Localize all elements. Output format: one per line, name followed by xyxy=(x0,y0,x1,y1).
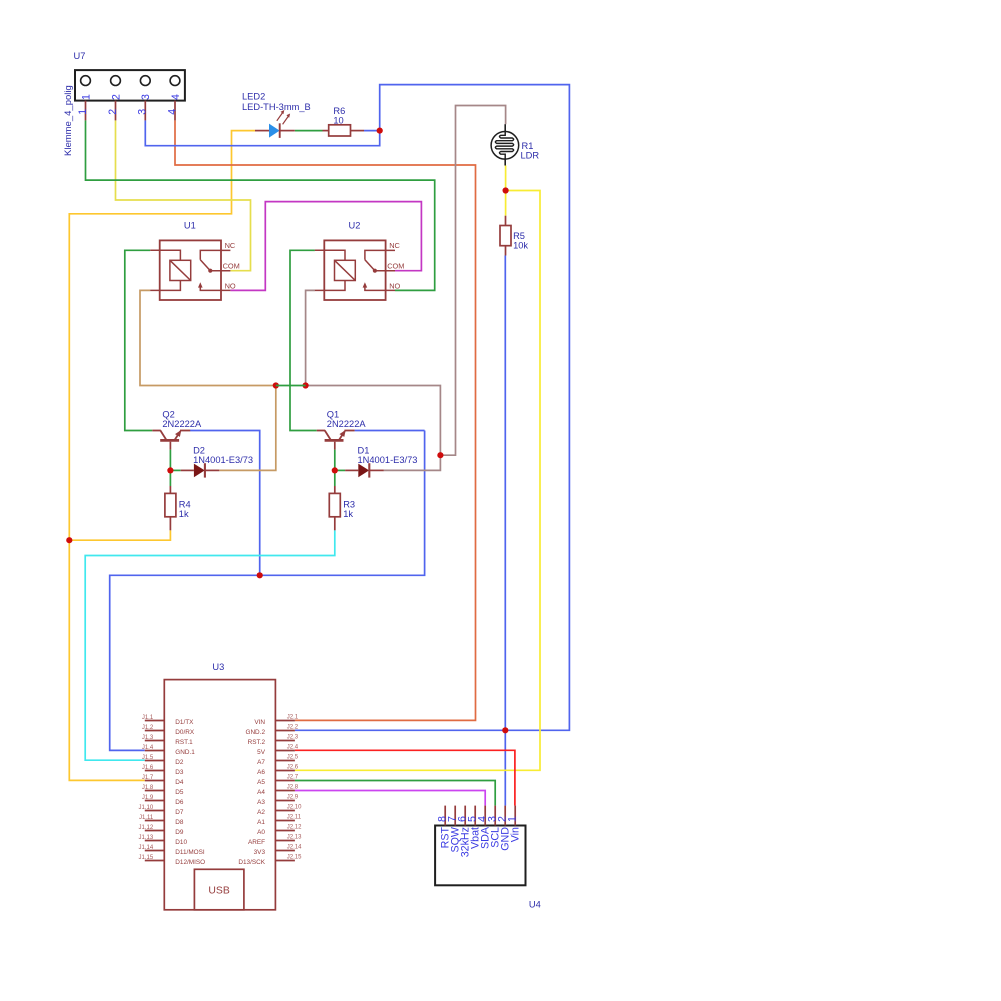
svg-text:D6: D6 xyxy=(175,799,184,806)
wire gold branch to R4 bottom xyxy=(69,530,170,540)
svg-text:J1.12: J1.12 xyxy=(139,825,154,831)
svg-text:10k: 10k xyxy=(513,240,528,250)
diode D1 xyxy=(345,446,417,478)
transistor Q2 xyxy=(152,410,202,450)
wire tan down to D2 cathode xyxy=(219,386,275,471)
svg-text:COM: COM xyxy=(387,262,404,271)
svg-text:A0: A0 xyxy=(257,829,265,836)
svg-text:D9: D9 xyxy=(175,829,184,836)
wire yellow LDR bottom to R5 top xyxy=(505,166,507,216)
wire green Q1 base link xyxy=(334,450,336,486)
wire green LED2 cathode to R6 xyxy=(295,130,323,132)
svg-text:J2.7: J2.7 xyxy=(287,775,299,781)
svg-text:NC: NC xyxy=(225,241,236,250)
node junction rosy D1/LDR xyxy=(437,452,443,458)
resistor R4 xyxy=(165,486,191,530)
svg-text:J1.4: J1.4 xyxy=(142,745,154,751)
wire blue R5 bottom to U4 GND xyxy=(504,256,506,806)
node junction LDR/R5/A6 xyxy=(503,187,509,193)
node junction R4/gold xyxy=(66,537,72,543)
svg-text:D0/RX: D0/RX xyxy=(175,729,195,736)
svg-text:LED2: LED2 xyxy=(242,92,265,102)
svg-text:J1.15: J1.15 xyxy=(139,855,154,861)
svg-text:U4: U4 xyxy=(529,900,541,910)
wire blue Q1 emitter bus xyxy=(355,430,425,432)
svg-text:U7: U7 xyxy=(74,51,86,61)
svg-text:D3: D3 xyxy=(175,769,184,776)
svg-text:D7: D7 xyxy=(175,809,184,816)
svg-text:J1.13: J1.13 xyxy=(139,835,154,841)
wire green U7.1 to U2 NO xyxy=(86,120,435,290)
svg-text:J2.6: J2.6 xyxy=(287,765,299,771)
svg-text:1: 1 xyxy=(77,109,89,115)
wire green link between bus junctions xyxy=(276,385,306,387)
svg-text:J1.3: J1.3 xyxy=(142,735,154,741)
photoresistor R1 LDR xyxy=(491,124,539,165)
svg-text:J2.11: J2.11 xyxy=(287,815,302,821)
svg-text:J1.2: J1.2 xyxy=(142,725,154,731)
svg-text:A5: A5 xyxy=(257,779,265,786)
wire green U2 coil to Q1 collector xyxy=(290,250,317,430)
svg-text:COM: COM xyxy=(223,262,240,271)
svg-text:GND.1: GND.1 xyxy=(175,749,195,756)
wire yellow divider to U3 A6 xyxy=(295,191,540,771)
svg-text:D4: D4 xyxy=(175,779,184,786)
svg-text:D1/TX: D1/TX xyxy=(175,719,194,726)
connector U7 Klemme_4_polig xyxy=(63,51,185,156)
svg-text:J1.7: J1.7 xyxy=(142,775,154,781)
svg-text:D11/MOSI: D11/MOSI xyxy=(175,849,205,856)
svg-text:U3: U3 xyxy=(212,662,224,672)
svg-text:R3: R3 xyxy=(343,500,355,510)
svg-text:Klemme_4_polig: Klemme_4_polig xyxy=(63,85,74,156)
svg-text:1k: 1k xyxy=(343,509,353,519)
svg-text:1N4001-E3/73: 1N4001-E3/73 xyxy=(358,455,418,465)
svg-text:A6: A6 xyxy=(257,769,265,776)
resistor R3 xyxy=(329,486,355,530)
transistor Q1 xyxy=(317,410,367,450)
wire cyan R3 bottom to U3 D2 xyxy=(85,530,335,760)
RTC module U4 xyxy=(435,806,541,910)
wire orange U7.4 to U3 VIN xyxy=(175,120,476,720)
svg-text:RST.1: RST.1 xyxy=(175,739,193,746)
svg-text:J2.10: J2.10 xyxy=(287,805,302,811)
wire green Q2 base link xyxy=(169,450,171,486)
svg-text:A1: A1 xyxy=(257,819,265,826)
wire green Q1 base to D1 anode xyxy=(335,469,345,471)
svg-text:GND.2: GND.2 xyxy=(245,729,265,736)
svg-text:U2: U2 xyxy=(349,220,361,230)
wire rosy U2 pin2 to D1 cathode xyxy=(306,290,315,385)
diode D2 xyxy=(181,446,253,478)
resistor R5 xyxy=(500,216,528,256)
node junction Q2 base xyxy=(167,467,173,473)
svg-text:J1.11: J1.11 xyxy=(139,815,154,821)
svg-text:J2.1: J2.1 xyxy=(287,715,299,721)
svg-text:J1.8: J1.8 xyxy=(142,785,154,791)
svg-text:2N2222A: 2N2222A xyxy=(327,419,367,429)
svg-text:NC: NC xyxy=(389,241,400,250)
svg-text:J2.5: J2.5 xyxy=(287,755,299,761)
svg-text:1: 1 xyxy=(80,94,92,100)
svg-text:NO: NO xyxy=(225,281,236,290)
wire tan U1 pin2 down xyxy=(140,290,276,385)
node junction rosy U2.2 bus xyxy=(303,382,309,388)
svg-text:J1.10: J1.10 xyxy=(139,805,154,811)
svg-text:2: 2 xyxy=(110,94,122,100)
svg-text:D5: D5 xyxy=(175,789,184,796)
svg-text:J1.9: J1.9 xyxy=(142,795,154,801)
svg-text:D8: D8 xyxy=(175,819,184,826)
wire violet U3 A4 to U4 SDA xyxy=(295,791,485,806)
svg-text:J1.1: J1.1 xyxy=(142,715,154,721)
svg-text:A4: A4 xyxy=(257,789,265,796)
svg-text:J1.6: J1.6 xyxy=(142,765,154,771)
svg-text:A3: A3 xyxy=(257,799,265,806)
node junction emitters xyxy=(257,572,263,578)
svg-text:D10: D10 xyxy=(175,839,187,846)
svg-text:D12/MISO: D12/MISO xyxy=(175,859,205,866)
wire blue Q2 emitter down xyxy=(190,431,260,576)
resistor R6 xyxy=(323,106,365,136)
svg-text:4: 4 xyxy=(170,94,182,100)
svg-text:VIN: VIN xyxy=(254,719,265,726)
wire blue GND bus R6 junction to U3 GND.2 xyxy=(295,85,570,731)
svg-text:10: 10 xyxy=(333,115,343,125)
svg-text:R4: R4 xyxy=(179,500,191,510)
wire green Q2 base to D2 anode xyxy=(170,469,180,471)
svg-text:J2.2: J2.2 xyxy=(287,725,299,731)
svg-text:J2.13: J2.13 xyxy=(287,835,302,841)
wire gold LED2 anode to corner xyxy=(69,131,255,781)
wire rosy LDR top run xyxy=(440,106,505,456)
svg-text:J1.14: J1.14 xyxy=(139,845,154,851)
relay U1 xyxy=(150,220,240,300)
svg-text:USB: USB xyxy=(208,886,229,897)
wire green U3 A5 to U4 SCL xyxy=(295,781,495,806)
svg-text:Q2: Q2 xyxy=(162,410,174,420)
node junction Q1 base xyxy=(332,467,338,473)
svg-text:D13/SCK: D13/SCK xyxy=(238,859,265,866)
svg-text:LED-TH-3mm_B: LED-TH-3mm_B xyxy=(242,102,311,112)
svg-text:1k: 1k xyxy=(179,509,189,519)
node junction R6/GND xyxy=(377,128,383,134)
svg-text:U1: U1 xyxy=(184,220,196,230)
svg-text:RST.2: RST.2 xyxy=(248,739,266,746)
svg-text:AREF: AREF xyxy=(248,839,265,846)
svg-text:A2: A2 xyxy=(257,809,265,816)
wire rosy relay bus to D1 xyxy=(306,386,441,471)
wire yellow U7.2 to U1 COM xyxy=(116,120,251,270)
svg-text:J2.14: J2.14 xyxy=(287,845,302,851)
svg-text:5V: 5V xyxy=(257,749,266,756)
wire blue emitter bus vertical xyxy=(110,431,425,751)
svg-text:Q1: Q1 xyxy=(327,410,339,420)
svg-text:1: 1 xyxy=(507,816,519,822)
svg-text:1N4001-E3/73: 1N4001-E3/73 xyxy=(193,455,253,465)
svg-text:J2.3: J2.3 xyxy=(287,735,299,741)
node junction GND/U4 xyxy=(502,727,508,733)
svg-text:NO: NO xyxy=(389,281,400,290)
svg-text:D2: D2 xyxy=(175,759,184,766)
wire blue U7.3 to R6 junction xyxy=(145,120,379,145)
svg-text:J2.15: J2.15 xyxy=(287,855,302,861)
svg-text:2N2222A: 2N2222A xyxy=(162,419,202,429)
svg-text:2: 2 xyxy=(107,109,119,115)
svg-text:J2.9: J2.9 xyxy=(287,795,299,801)
svg-text:A7: A7 xyxy=(257,759,265,766)
svg-text:3: 3 xyxy=(137,109,149,115)
svg-text:J1.5: J1.5 xyxy=(142,755,154,761)
svg-text:J2.12: J2.12 xyxy=(287,825,302,831)
node junction tan U1.2 bus xyxy=(273,382,279,388)
LED LED2 xyxy=(242,92,311,138)
microcontroller U3 Arduino xyxy=(139,662,303,910)
wire red U3 5V to U4 Vin xyxy=(295,750,515,805)
wire green U1 coil to Q2 collector xyxy=(125,250,153,430)
svg-text:4: 4 xyxy=(166,109,178,115)
svg-text:Vin: Vin xyxy=(510,827,522,842)
relay U2 xyxy=(315,220,405,300)
svg-text:3: 3 xyxy=(140,94,152,100)
svg-text:J2.4: J2.4 xyxy=(287,745,299,751)
svg-text:J2.8: J2.8 xyxy=(287,785,299,791)
svg-text:LDR: LDR xyxy=(521,150,540,160)
wire magenta U1 NO to U2 COM xyxy=(230,202,421,291)
svg-text:3V3: 3V3 xyxy=(254,849,266,856)
